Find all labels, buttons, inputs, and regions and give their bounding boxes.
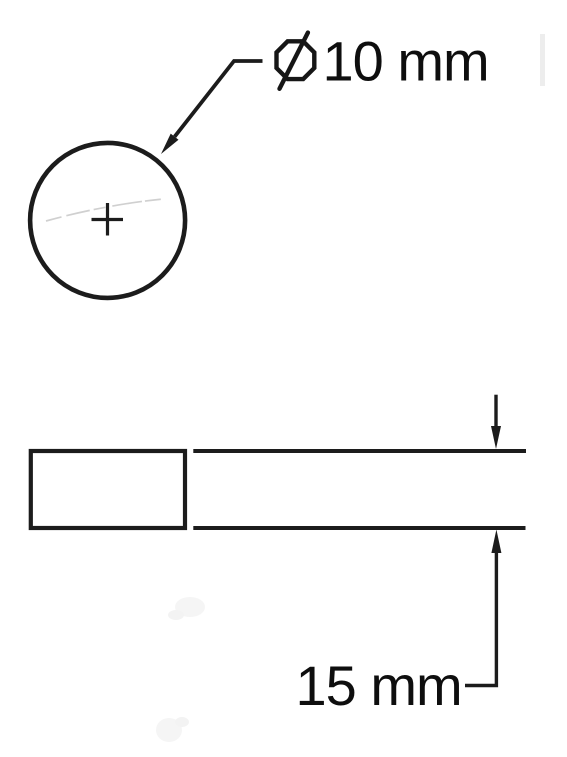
svg-text:15 mm: 15 mm <box>296 654 462 717</box>
svg-text:10 mm: 10 mm <box>323 30 489 93</box>
